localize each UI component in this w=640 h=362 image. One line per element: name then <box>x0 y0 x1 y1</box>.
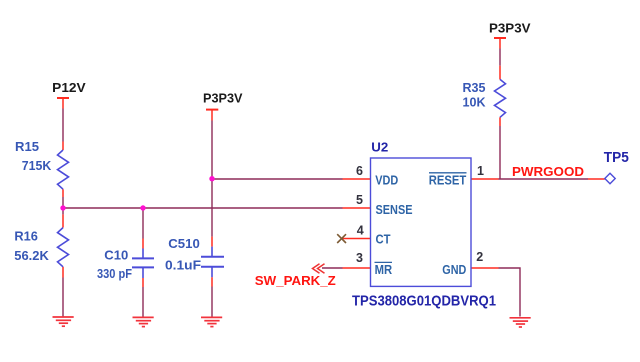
svg-text:R35: R35 <box>463 80 486 95</box>
svg-text:1: 1 <box>477 164 484 178</box>
svg-text:4: 4 <box>357 224 364 238</box>
svg-text:56.2K: 56.2K <box>14 248 49 263</box>
svg-text:0.1uF: 0.1uF <box>165 257 201 272</box>
svg-text:R16: R16 <box>14 229 38 244</box>
svg-text:SENSE: SENSE <box>376 202 413 217</box>
svg-text:VDD: VDD <box>375 173 398 188</box>
svg-text:2: 2 <box>476 250 483 264</box>
svg-text:715K: 715K <box>22 158 52 173</box>
svg-text:GND: GND <box>442 262 466 277</box>
svg-text:10K: 10K <box>463 94 487 109</box>
svg-text:3: 3 <box>356 251 363 265</box>
svg-text:CT: CT <box>376 232 391 247</box>
svg-text:330 pF: 330 pF <box>97 266 132 281</box>
svg-text:RESET: RESET <box>429 173 467 188</box>
svg-text:P3P3V: P3P3V <box>489 20 531 35</box>
svg-text:P3P3V: P3P3V <box>203 91 243 106</box>
svg-text:PWRGOOD: PWRGOOD <box>512 164 584 179</box>
svg-text:TP5: TP5 <box>604 149 629 166</box>
svg-text:6: 6 <box>356 164 363 178</box>
svg-text:MR: MR <box>375 262 393 277</box>
svg-text:5: 5 <box>356 193 363 207</box>
svg-text:C510: C510 <box>168 236 200 251</box>
svg-text:TPS3808G01QDBVRQ1: TPS3808G01QDBVRQ1 <box>352 292 496 309</box>
svg-text:SW_PARK_Z: SW_PARK_Z <box>255 273 336 288</box>
svg-text:U2: U2 <box>371 139 388 154</box>
svg-text:C10: C10 <box>104 248 128 263</box>
svg-text:P12V: P12V <box>52 80 86 95</box>
svg-text:R15: R15 <box>15 139 39 154</box>
